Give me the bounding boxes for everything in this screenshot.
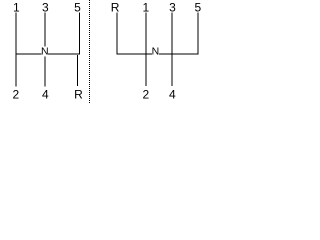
svg-text:4: 4: [42, 88, 49, 102]
wire pin3 to node N (left diagram): [44, 13, 46, 47]
svg-text:R: R: [74, 88, 83, 102]
svg-text:R: R: [111, 0, 120, 14]
svg-text:5: 5: [195, 0, 202, 14]
svg-text:1: 1: [13, 0, 20, 14]
wire bus to pin R (left diagram): [77, 55, 79, 86]
svg-text:2: 2: [12, 88, 19, 102]
wire node N to pin4 (left diagram): [44, 56, 46, 86]
divider dotted separator line: [89, 0, 91, 104]
svg-text:2: 2: [142, 88, 149, 102]
wire pin R to bus with corner (right diagram): [117, 12, 152, 54]
svg-text:3: 3: [42, 0, 49, 14]
wire pin5 to bus with corner (left diagram): [48, 12, 79, 54]
wire pin1-pin2 (right diagram): [145, 13, 147, 86]
wire bus left segment (left diagram): [16, 53, 42, 55]
svg-text:5: 5: [74, 0, 81, 14]
svg-text:4: 4: [169, 88, 176, 102]
wire pin5 to bus with corner (right diagram): [159, 12, 198, 54]
svg-text:N: N: [152, 46, 160, 58]
svg-text:N: N: [41, 46, 49, 58]
svg-text:1: 1: [143, 0, 150, 14]
svg-text:3: 3: [169, 0, 176, 14]
wire pin3-pin4 (right diagram): [171, 13, 173, 86]
wire pin1-pin2 (left diagram): [15, 13, 17, 87]
